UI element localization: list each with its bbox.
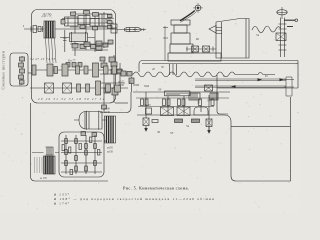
tailstock handwheel (edge-on)	[277, 7, 287, 19]
bed top lines	[139, 61, 298, 73]
feed gearbox housing	[59, 132, 104, 177]
machine left end wall	[163, 26, 168, 61]
change gear quadrant box	[10, 53, 28, 86]
bed wavy break line	[133, 72, 275, 77]
tailstock body	[216, 19, 249, 59]
svg-text:Рис. 5. Кинематическая схема.: Рис. 5. Кинематическая схема.	[123, 185, 189, 190]
feed box vertical shafts	[66, 135, 95, 174]
pedestal cap	[171, 20, 190, 25]
svg-text:XXII: XXII	[132, 83, 140, 87]
change gear chain	[21, 56, 23, 85]
bed bottom rail	[217, 87, 298, 89]
shaft XXI horizontal	[133, 91, 230, 93]
tailstock crank arm right	[284, 19, 295, 21]
svg-text:45 43: 45 43	[144, 103, 151, 107]
vertical shaft IX	[109, 14, 111, 28]
svg-text:54: 54	[256, 33, 260, 37]
vertical shaft VI	[85, 10, 87, 50]
feed box gears	[65, 139, 68, 144]
vertical shaft VIII	[103, 12, 105, 48]
workpiece in chuck	[125, 27, 144, 32]
svg-text:87: 87	[19, 83, 23, 87]
outer enclosure left/bottom	[31, 103, 109, 181]
top cluster cross shafts	[62, 14, 114, 27]
svg-text:⌀225: ⌀225	[118, 81, 124, 84]
svg-text:82: 82	[196, 37, 200, 41]
motor pulley hatched block	[44, 21, 55, 38]
tailstock screw column	[279, 18, 287, 58]
shaft XXIII row	[175, 119, 183, 123]
apron/cabinet outline with rounded corner	[137, 97, 291, 181]
vertical shaft V	[74, 11, 76, 56]
rack pinion hanging gear A	[143, 118, 149, 131]
side knob	[287, 26, 293, 28]
gearbox upper band boxes	[65, 14, 109, 26]
bed right end	[297, 61, 299, 89]
svg-text:⌀ 174°: ⌀ 174°	[54, 201, 70, 205]
belt pulley cluster under motor	[66, 63, 82, 68]
apron name box	[165, 91, 191, 96]
change gears hatched block	[44, 147, 56, 174]
svg-text:34 27 23 74 73: 34 27 23 74 73	[30, 57, 55, 61]
svg-text:53': 53'	[170, 131, 174, 135]
pedestal neck	[174, 25, 187, 33]
link change gears to feed box	[32, 152, 59, 154]
countershaft vertical	[63, 30, 67, 52]
svg-text:⌀288: ⌀288	[118, 84, 124, 87]
svg-text:Сменные шестерни: Сменные шестерни	[2, 51, 6, 90]
bed leg step	[217, 75, 228, 114]
output gear cluster right wall	[98, 55, 133, 112]
spindle line with workpiece	[117, 29, 146, 31]
apron gear row 1	[136, 98, 229, 107]
under-bed clutch box	[205, 85, 213, 91]
rack pinion hanging gear B	[206, 119, 212, 133]
svg-text:59: 59	[158, 88, 162, 92]
drum bottom pinions	[81, 132, 97, 137]
right bearing bracket	[284, 77, 294, 96]
pedestal crank handle circle	[193, 3, 203, 13]
svg-text:Do 77: Do 77	[67, 59, 76, 63]
svg-text:54: 54	[186, 124, 190, 128]
svg-text:⌀ 168° — для передачи скоросте: ⌀ 168° — для передачи скоростей шпинделя…	[54, 197, 214, 201]
svg-text:29 26 31 32 33 28 30 27 34: 29 26 31 32 33 28 30 27 34	[38, 97, 104, 101]
pedestal body	[171, 33, 190, 44]
headstock gearbox housing outline	[32, 10, 116, 104]
tailstock nut block	[276, 33, 286, 41]
gearbox upper band gears	[61, 11, 112, 30]
vertical shaft VII	[94, 12, 96, 52]
feed drum (barrel)	[79, 111, 102, 130]
svg-text:XXI: XXI	[143, 84, 150, 88]
pedestal base	[170, 44, 193, 53]
gearbox lower band gears	[72, 40, 113, 51]
leadscrew end gears left	[186, 48, 216, 50]
link line to shaft XXII	[100, 92, 131, 113]
shaft II	[31, 69, 123, 71]
belt lines below motor	[46, 38, 57, 63]
bed left leg	[170, 64, 177, 75]
hatched feed blocks under bed	[189, 93, 200, 100]
svg-text:⌀ 135°: ⌀ 135°	[54, 193, 70, 197]
input shaft I	[24, 28, 114, 30]
feed box output line	[104, 140, 106, 142]
apron vertical shafts	[146, 92, 209, 133]
gear hatch stack right of drum	[105, 116, 116, 143]
lower band cross shafts	[70, 44, 112, 50]
svg-text:⌀105: ⌀105	[107, 147, 113, 150]
svg-text:56: 56	[157, 130, 161, 134]
shaft I bearing gears	[33, 26, 37, 33]
base plate	[168, 53, 221, 61]
feed rod arrowheads	[258, 78, 285, 81]
shaft III	[30, 87, 128, 89]
headstock bottom line extension	[115, 102, 128, 104]
gears on shaft II	[32, 63, 117, 77]
tailstock center cone	[209, 26, 216, 34]
quadrant link line	[28, 72, 32, 74]
feed box horizontal shafts	[61, 141, 102, 172]
apron clutch row 2	[161, 107, 174, 116]
svg-text:⌀ 17b: ⌀ 17b	[40, 176, 48, 180]
clutch drum on shaft I	[60, 32, 95, 43]
shaft XXII upper stub	[131, 77, 133, 92]
spindle gears on right wall	[111, 24, 117, 28]
svg-text:⌀150: ⌀150	[107, 151, 113, 154]
clutch gear III-b	[63, 83, 72, 93]
gears on shaft III	[77, 81, 121, 95]
clutch gear III-a	[45, 83, 54, 93]
svg-text:Д179: Д179	[41, 13, 52, 18]
lead screw and feed rod	[195, 79, 286, 87]
drum shaft	[74, 119, 107, 121]
faint second change-gear hatch	[35, 157, 43, 173]
crank gooseneck arm	[180, 11, 195, 21]
spring squiggle 54	[252, 26, 281, 33]
svg-text:⌀40: ⌀40	[104, 17, 108, 23]
